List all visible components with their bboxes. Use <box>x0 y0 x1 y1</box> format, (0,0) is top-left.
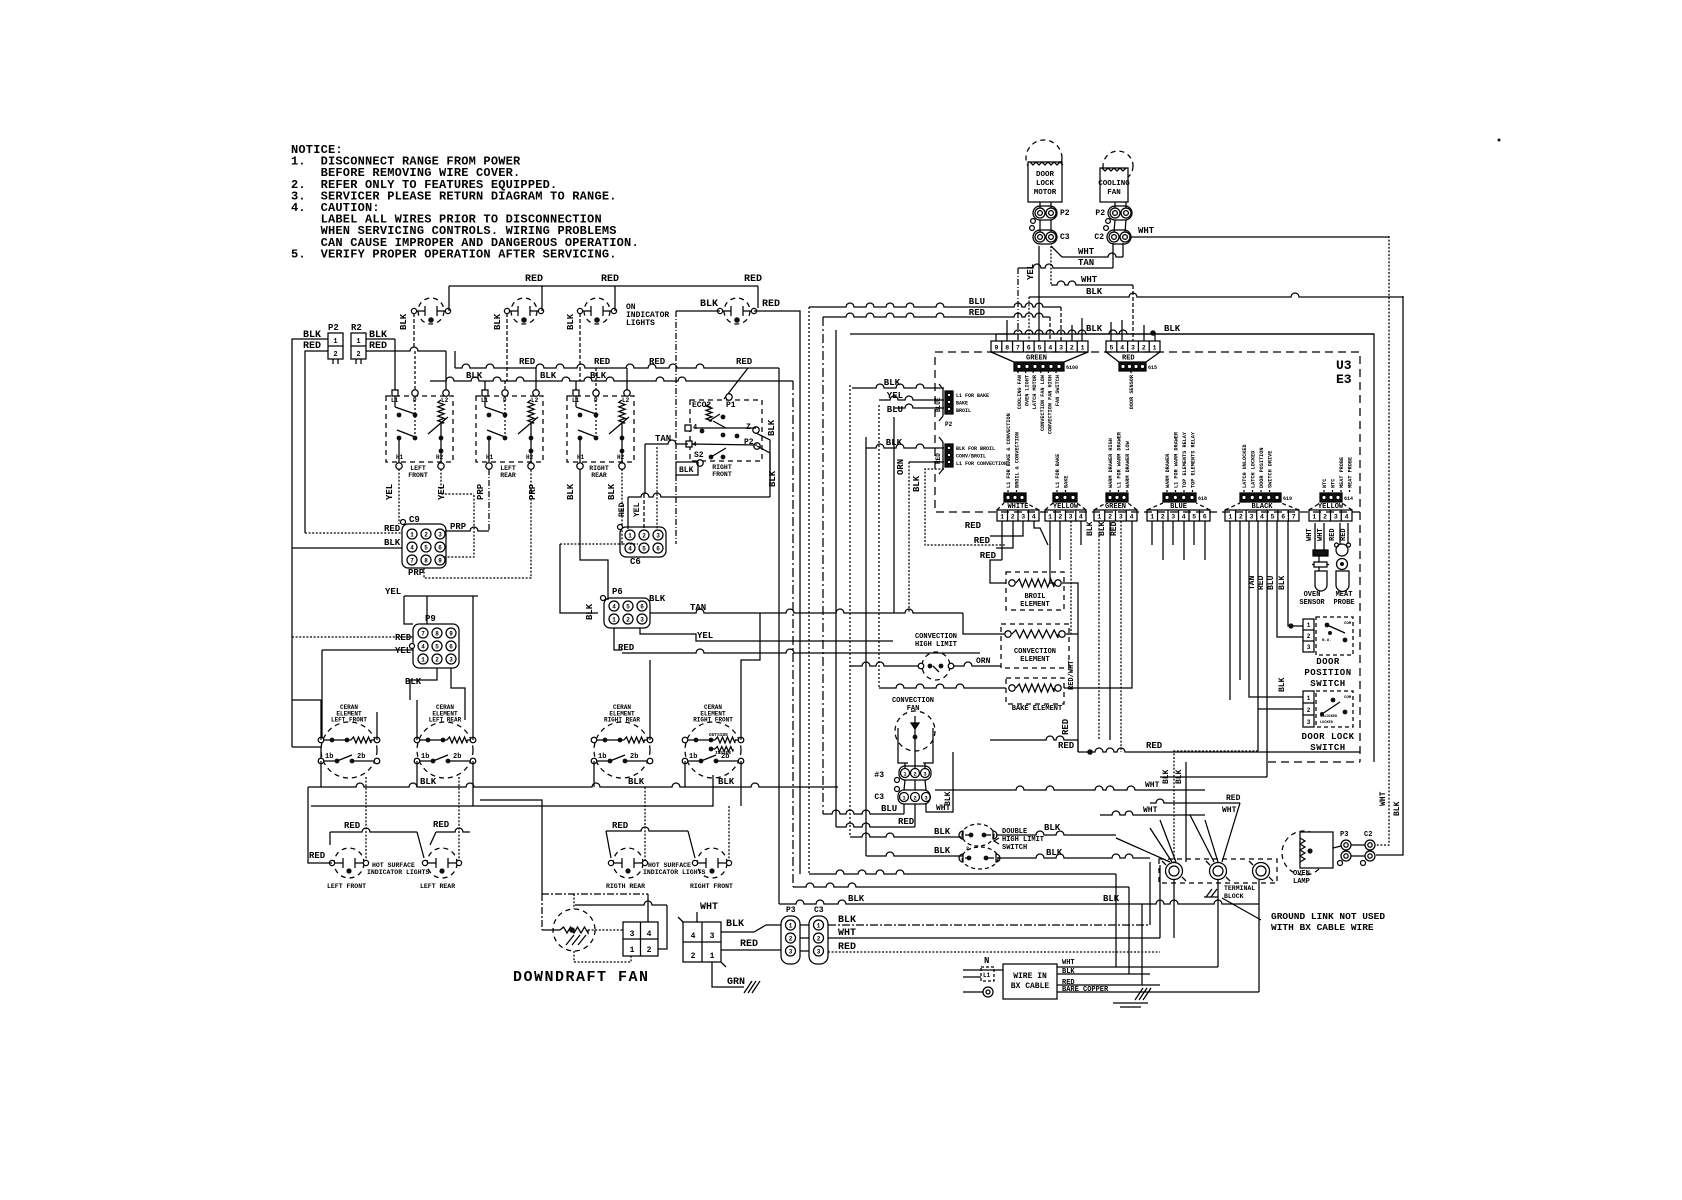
ceran right terminal drops <box>472 761 474 806</box>
wire left rail segment <box>321 650 323 740</box>
wire YEL from P6 <box>640 628 893 641</box>
svg-text:RED: RED <box>1257 575 1266 590</box>
svg-text:H2: H2 <box>436 454 444 461</box>
strip GREEN trapezoid <box>1094 503 1106 510</box>
svg-text:NTC: NTC <box>1331 479 1337 488</box>
svg-text:L1 FOR BAKE: L1 FOR BAKE <box>1055 454 1061 488</box>
svg-text:BLK: BLK <box>767 419 777 436</box>
wire PRP from C9 pin3 to LEFT REAR H1 <box>445 527 489 531</box>
terminal block <box>1159 859 1277 883</box>
svg-text:BLK: BLK <box>1278 677 1287 692</box>
svg-text:TERMINAL: TERMINAL <box>1224 885 1255 892</box>
svg-text:2: 2 <box>1108 514 1112 521</box>
svg-text:BLK: BLK <box>934 827 951 837</box>
svg-text:BLK: BLK <box>1044 823 1061 833</box>
svg-text:BLU: BLU <box>1267 575 1276 590</box>
wire BLK from DHL1 right <box>996 831 1116 835</box>
terminal H1 RIGHT <box>577 463 583 469</box>
svg-text:BLK: BLK <box>590 371 607 381</box>
svg-text:PRP: PRP <box>528 483 538 500</box>
svg-text:FAN: FAN <box>1107 189 1121 197</box>
svg-text:BLK: BLK <box>884 378 901 388</box>
wire lamp3 top feed <box>614 286 616 311</box>
downdraft leads <box>573 894 575 909</box>
connector strip BLUE 6-pin <box>1147 510 1210 521</box>
svg-text:RED: RED <box>395 633 412 643</box>
svg-text:614: 614 <box>1344 496 1353 502</box>
wire BLK branch to C9 <box>292 547 402 549</box>
svg-text:REAR: REAR <box>591 472 607 479</box>
svg-text:4: 4 <box>1120 345 1124 352</box>
wire P9 down legs <box>451 668 465 720</box>
svg-text:1: 1 <box>1048 514 1052 521</box>
hot lamp vertical feeds dotted <box>365 777 367 860</box>
svg-text:LEFT REAR: LEFT REAR <box>429 717 462 724</box>
svg-text:2: 2 <box>691 952 696 961</box>
svg-text:BROIL & CONVECTION: BROIL & CONVECTION <box>1015 432 1021 488</box>
wires from P3/C3 to right <box>800 924 809 926</box>
svg-text:RIGHT FRONT: RIGHT FRONT <box>690 883 733 890</box>
svg-text:TAN: TAN <box>655 434 671 444</box>
connector P2 cooling fan <box>1108 206 1132 220</box>
svg-text:2b: 2b <box>453 753 461 761</box>
svg-text:CONVECTION: CONVECTION <box>915 633 957 641</box>
svg-text:2: 2 <box>913 770 916 777</box>
wire WHT upper bundle <box>1100 811 1205 815</box>
svg-text:GREEN: GREEN <box>1105 503 1126 511</box>
svg-text:BLK: BLK <box>649 594 666 604</box>
svg-text:RED: RED <box>612 821 629 831</box>
svg-text:ORN: ORN <box>896 459 906 475</box>
wires below GREEN2 strip <box>1098 521 1100 740</box>
svg-text:WHITE: WHITE <box>1007 503 1028 511</box>
svg-text:BAKE: BAKE <box>956 401 968 407</box>
svg-text:RIGHT: RIGHT <box>589 465 609 472</box>
svg-text:8: 8 <box>1005 345 1009 352</box>
svg-text:WHT: WHT <box>1317 528 1325 541</box>
ceran chord2 left feed from rail <box>292 747 321 758</box>
svg-text:LEFT FRONT: LEFT FRONT <box>331 717 367 724</box>
svg-text:4: 4 <box>1130 514 1134 521</box>
svg-text:3: 3 <box>640 616 644 623</box>
hot surface indicator LEFT REAR <box>427 848 457 878</box>
svg-text:P6: P6 <box>612 587 623 597</box>
indicator lamp right-rear <box>584 298 610 324</box>
wire RED conn4 down <box>925 469 1006 545</box>
terminal H1 LEFT <box>486 463 492 469</box>
svg-text:5: 5 <box>1109 345 1113 352</box>
terminal H2 LEFT <box>528 463 534 469</box>
svg-text:BLUE: BLUE <box>1170 503 1187 511</box>
connector strip YELLOW 4-pin <box>1309 510 1352 521</box>
wires below YELLOW strip <box>1050 521 1058 583</box>
wire TB1 down to WHT <box>1173 880 1175 938</box>
wire link R2-RED to RED bus <box>454 351 456 368</box>
svg-text:BLK: BLK <box>405 677 422 687</box>
svg-text:RIGHT FRONT: RIGHT FRONT <box>693 717 733 724</box>
svg-text:YEL: YEL <box>633 502 642 517</box>
svg-text:DOWNDRAFT FAN: DOWNDRAFT FAN <box>513 969 650 986</box>
svg-text:LOCK: LOCK <box>1036 180 1055 188</box>
wire into conv high limit <box>850 662 918 666</box>
svg-text:3: 3 <box>656 532 660 539</box>
svg-text:MEAT PROBE: MEAT PROBE <box>1348 457 1354 488</box>
svg-text:1: 1 <box>1150 514 1154 521</box>
double high limit switch 2 <box>962 847 998 869</box>
wire BLK bus under cerans <box>308 783 838 787</box>
connector strip BLACK 7-pin <box>1225 510 1299 521</box>
ceran element ELEMENT LEFT FRONT <box>321 722 377 778</box>
connector C6 <box>620 527 666 557</box>
wire blk bus from eco right area down <box>799 334 801 874</box>
door position switch <box>1316 617 1353 655</box>
connector strip YELLOW 4-pin <box>1045 510 1086 521</box>
svg-text:LOCKED: LOCKED <box>1320 721 1334 725</box>
svg-text:C3: C3 <box>874 793 884 802</box>
connector BLUE 4-pin left <box>945 391 953 414</box>
rail ORN down <box>908 462 910 612</box>
connector block bottom 4321 <box>683 922 721 962</box>
neutral box <box>981 967 994 981</box>
svg-text:P2: P2 <box>328 323 339 333</box>
strip YELLOW trapezoid <box>1045 503 1053 510</box>
svg-text:HIGH LIMIT: HIGH LIMIT <box>915 641 957 649</box>
terminal H2 LEFT <box>438 463 444 469</box>
door lock motor <box>1026 140 1062 176</box>
switch arm ECO upper <box>713 421 726 428</box>
svg-text:INDICATOR LIGHTS: INDICATOR LIGHTS <box>643 869 706 876</box>
svg-text:BLK: BLK <box>838 915 856 926</box>
svg-text:3: 3 <box>923 770 927 777</box>
svg-text:FAN: FAN <box>907 705 920 713</box>
svg-text:BLK: BLK <box>1278 575 1287 590</box>
svg-text:BLK: BLK <box>628 777 645 787</box>
svg-text:C3: C3 <box>1060 233 1070 242</box>
svg-text:RED: RED <box>1061 718 1071 735</box>
strip WHITE pcb connector <box>1004 493 1026 502</box>
svg-text:RED: RED <box>1122 355 1135 363</box>
rail BLU bottom to terminal block <box>809 870 1116 874</box>
hot surface indicator RIGTH REAR <box>613 848 643 878</box>
svg-text:BLK: BLK <box>1086 521 1095 536</box>
svg-text:RED: RED <box>433 820 450 830</box>
svg-text:P1: P1 <box>726 401 736 410</box>
svg-text:BLUE: BLUE <box>935 397 942 412</box>
svg-text:RED: RED <box>935 453 942 464</box>
wire lamp4 feed <box>757 286 759 308</box>
wire long left vertical x305 extra <box>304 532 306 534</box>
svg-text:L1 FOR WARM DRAWER: L1 FOR WARM DRAWER <box>1174 431 1180 488</box>
svg-text:BLACK: BLACK <box>1251 503 1273 511</box>
connector strip GREEN 9-pin <box>991 341 1088 352</box>
oven sensor <box>1313 550 1328 556</box>
svg-text:4: 4 <box>410 544 414 551</box>
wire BLK from R2 right <box>366 338 395 340</box>
wire bundle RED to terminal block <box>990 736 1078 740</box>
svg-text:L1 FOR BAKE & CONVECTION: L1 FOR BAKE & CONVECTION <box>1006 413 1012 488</box>
wire lamp2 top feed <box>541 286 543 311</box>
svg-text:RIGTH REAR: RIGTH REAR <box>606 883 645 890</box>
svg-text:TAN: TAN <box>1078 258 1094 268</box>
svg-text:WHT: WHT <box>1062 959 1075 967</box>
svg-text:L1: L1 <box>983 972 991 979</box>
wires below YELLOW2 strip <box>1314 523 1316 550</box>
svg-text:1: 1 <box>630 946 635 955</box>
svg-text:1: 1 <box>410 531 414 538</box>
wire WHT left bundle <box>935 786 1205 790</box>
svg-text:2: 2 <box>789 935 793 942</box>
wires lamp bottom bus <box>1142 900 1259 904</box>
wire RED to conv fan C3-2 <box>836 823 915 827</box>
wire copper up to terminal block <box>1258 880 1260 992</box>
wire WHT long bottom <box>828 937 1160 939</box>
wire BLK bus upper <box>430 377 793 381</box>
svg-text:PRP: PRP <box>476 483 486 500</box>
svg-text:DOOR SENSOR: DOOR SENSOR <box>1129 374 1135 409</box>
svg-text:YEL: YEL <box>395 646 411 656</box>
connector P2 door lock <box>1033 206 1057 220</box>
svg-text:2: 2 <box>1323 514 1327 521</box>
hot surface indicator RIGHT FRONT <box>697 848 727 878</box>
svg-text:3: 3 <box>1307 644 1311 651</box>
ground link symbol <box>1204 889 1218 897</box>
svg-text:H1: H1 <box>577 454 585 461</box>
svg-text:LATCH UNLOCKED: LATCH UNLOCKED <box>1242 444 1248 488</box>
svg-text:3: 3 <box>1334 514 1338 521</box>
svg-text:DOOR: DOOR <box>1036 171 1055 179</box>
svg-text:FAN SWITCH: FAN SWITCH <box>1055 375 1061 406</box>
svg-text:2: 2 <box>435 656 439 663</box>
svg-text:WARM DRAWER HIGH: WARM DRAWER HIGH <box>1108 438 1114 488</box>
svg-text:ECO2: ECO2 <box>692 401 711 410</box>
label BLK box <box>676 462 698 475</box>
svg-text:TOP ELEMENTS RELAY: TOP ELEMENTS RELAY <box>1182 431 1188 488</box>
svg-text:LAMP: LAMP <box>1293 878 1310 886</box>
svg-text:8: 8 <box>424 557 428 564</box>
svg-text:6: 6 <box>1027 345 1031 352</box>
svg-text:3: 3 <box>1307 719 1311 726</box>
svg-text:5: 5 <box>424 544 428 551</box>
svg-text:C2: C2 <box>1364 831 1372 839</box>
cooling fan motor <box>1103 151 1133 181</box>
underline ground <box>1113 1002 1148 1004</box>
wire BLK to DHL1 <box>850 833 963 837</box>
svg-text:RED: RED <box>309 851 326 861</box>
svg-text:3: 3 <box>817 948 821 955</box>
wires below WHITE strip RED <box>1001 521 1003 560</box>
svg-text:1: 1 <box>902 794 906 801</box>
svg-text:3: 3 <box>449 656 453 663</box>
svg-text:LIGHTS: LIGHTS <box>626 319 655 328</box>
wire RED/WHT right of elements <box>1062 583 1078 752</box>
svg-text:RED: RED <box>969 308 986 318</box>
svg-text:BAKE: BAKE <box>1064 476 1070 488</box>
svg-text:E3: E3 <box>1336 372 1352 387</box>
downdraft dash-dot enclosure <box>542 893 648 895</box>
switch box ECO2 right front <box>690 400 762 461</box>
svg-text:3: 3 <box>1249 514 1253 521</box>
svg-text:RED: RED <box>649 357 666 367</box>
rail BLU down <box>808 307 810 874</box>
svg-text:2: 2 <box>1239 514 1243 521</box>
connector strip RED 5-pin <box>1106 341 1160 352</box>
svg-text:WHT: WHT <box>838 928 856 939</box>
svg-text:5: 5 <box>1271 514 1275 521</box>
wire WHT cooling to right rail <box>1131 236 1389 238</box>
svg-text:BLK: BLK <box>700 299 718 310</box>
door lock switch connector <box>1303 691 1314 727</box>
svg-text:1: 1 <box>333 338 337 346</box>
strip YELLOW trapezoid <box>1309 503 1320 510</box>
indicator lamp oven / right <box>724 298 750 324</box>
connector strip GREEN 4-pin <box>1094 510 1137 521</box>
wire in bx cable box <box>1003 964 1057 999</box>
wires from BLACK strip down <box>1229 521 1231 700</box>
svg-text:WHT: WHT <box>1306 528 1314 541</box>
svg-text:3: 3 <box>438 531 442 538</box>
svg-text:2: 2 <box>817 935 821 942</box>
wires left returns <box>1174 751 1258 862</box>
svg-text:L2: L2 <box>441 397 449 404</box>
svg-text:1: 1 <box>789 922 793 929</box>
wire BLK lower to C6 <box>628 493 770 497</box>
svg-text:WHT: WHT <box>1138 226 1155 236</box>
svg-text:LATCH LOCKED: LATCH LOCKED <box>1251 451 1257 488</box>
switch arm ECO lower <box>686 441 692 447</box>
horizontal through right <box>1159 864 1161 866</box>
wire c6 feeds <box>560 543 623 545</box>
indicator lamp left-front <box>418 298 444 324</box>
svg-text:WHT: WHT <box>1379 791 1388 806</box>
svg-text:BLU: BLU <box>887 405 903 415</box>
svg-text:4: 4 <box>1048 345 1052 352</box>
svg-text:4: 4 <box>1345 514 1349 521</box>
door lock switch <box>1316 691 1353 727</box>
svg-text:CONVECTION FAN HIGH: CONVECTION FAN HIGH <box>1047 375 1053 434</box>
svg-text:RED: RED <box>1226 794 1241 803</box>
svg-text:WHT: WHT <box>1078 247 1095 257</box>
connector C3 door lock <box>1033 230 1057 244</box>
svg-text:YEL: YEL <box>887 391 903 401</box>
svg-text:HOT SURFACE: HOT SURFACE <box>372 862 415 869</box>
wires bottom hot lamps to downdraft <box>480 800 542 894</box>
svg-text:OVEN: OVEN <box>1304 591 1321 599</box>
svg-text:2: 2 <box>333 351 337 359</box>
strip RED pcb connector <box>1119 362 1146 371</box>
svg-text:RED/WHT: RED/WHT <box>1068 661 1076 690</box>
svg-text:P2: P2 <box>744 438 754 447</box>
svg-text:RED: RED <box>974 536 991 546</box>
strip BLUE trapezoid <box>1147 503 1163 510</box>
conv fan housing <box>898 728 933 763</box>
svg-text:R2: R2 <box>351 323 362 333</box>
svg-text:2: 2 <box>1058 514 1062 521</box>
wire feeds box3 <box>575 381 577 390</box>
svg-text:COM: COM <box>1344 622 1352 626</box>
svg-text:5: 5 <box>626 603 630 610</box>
svg-text:3: 3 <box>710 932 715 941</box>
wire ORN from conv high limit <box>954 662 1001 666</box>
svg-text:RED: RED <box>736 357 753 367</box>
svg-text:2: 2 <box>966 846 969 852</box>
stray mark top right <box>1498 139 1501 142</box>
oven lamp wiring <box>1333 846 1341 848</box>
svg-text:619: 619 <box>1283 496 1292 502</box>
rail RED down to conv fan <box>822 317 824 814</box>
indicator lamp left-rear <box>511 298 537 324</box>
svg-text:RED: RED <box>1146 741 1163 751</box>
wire RED box to P3 <box>721 949 781 951</box>
wire WHT out <box>1057 966 1218 968</box>
svg-text:GREEN: GREEN <box>1026 355 1047 363</box>
svg-text:2: 2 <box>1011 514 1015 521</box>
svg-text:RED: RED <box>965 521 982 531</box>
ceran top feeds <box>292 700 321 740</box>
svg-text:P2: P2 <box>1095 209 1105 218</box>
svg-text:7: 7 <box>1016 345 1020 352</box>
svg-text:COM: COM <box>1344 696 1352 700</box>
svg-text:HOT SURFACE: HOT SURFACE <box>648 862 691 869</box>
connector RED 4-pin left <box>945 444 953 467</box>
svg-text:4: 4 <box>421 643 425 650</box>
svg-text:LEFT: LEFT <box>410 465 426 472</box>
svg-text:1: 1 <box>1081 345 1085 352</box>
svg-text:9: 9 <box>994 345 998 352</box>
svg-text:OVEN LIGHT: OVEN LIGHT <box>1025 375 1031 406</box>
svg-text:L1 FOR CONVECTION: L1 FOR CONVECTION <box>956 461 1007 467</box>
wire RED long from left rail to P9 <box>292 636 413 638</box>
terminal H2 RIGHT <box>619 463 625 469</box>
wire BLK long bottom <box>828 924 1150 926</box>
svg-text:PROBE: PROBE <box>1333 599 1354 607</box>
wire TAN junction to door lock <box>1258 708 1303 710</box>
svg-text:BLK: BLK <box>912 475 922 492</box>
wire BLK H1 rightrear down <box>580 469 608 600</box>
downdraft fan motor <box>553 909 595 951</box>
svg-text:2b: 2b <box>357 753 365 761</box>
resistor ECO <box>706 404 712 421</box>
svg-text:RED: RED <box>898 817 915 827</box>
svg-text:UNLOCKED: UNLOCKED <box>1320 715 1338 719</box>
svg-text:BLK: BLK <box>384 538 401 548</box>
svg-text:BLK: BLK <box>566 483 576 500</box>
svg-text:FRONT: FRONT <box>712 471 732 478</box>
svg-text:BLK: BLK <box>585 603 595 620</box>
svg-text:8: 8 <box>435 630 439 637</box>
svg-text:1b: 1b <box>598 753 606 761</box>
svg-text:6: 6 <box>640 603 644 610</box>
svg-text:MOTOR: MOTOR <box>1034 189 1057 197</box>
wire BLK from P2 to left rail <box>292 339 328 548</box>
infinite switch LEFT FRONT <box>386 396 453 462</box>
oven lamp <box>1282 831 1326 875</box>
svg-text:2: 2 <box>1307 707 1311 714</box>
svg-text:RED: RED <box>594 357 611 367</box>
svg-text:L2: L2 <box>622 397 630 404</box>
svg-text:RED: RED <box>1110 521 1119 536</box>
svg-text:RIGHT REAR: RIGHT REAR <box>604 717 640 724</box>
wire BLK P9 down <box>410 668 437 700</box>
wire TAN from P6 <box>650 609 963 613</box>
ground hash marks <box>1135 988 1143 1000</box>
wires into terminal block diagonals <box>1116 838 1170 862</box>
svg-text:C6: C6 <box>630 557 641 567</box>
wire BLU to conv fan C3 <box>823 810 904 814</box>
svg-text:5: 5 <box>1192 514 1196 521</box>
wire TB2 down to bx WHT <box>1217 880 1219 967</box>
svg-text:YEL: YEL <box>697 631 713 641</box>
ceran lower drops to bus <box>320 761 322 787</box>
